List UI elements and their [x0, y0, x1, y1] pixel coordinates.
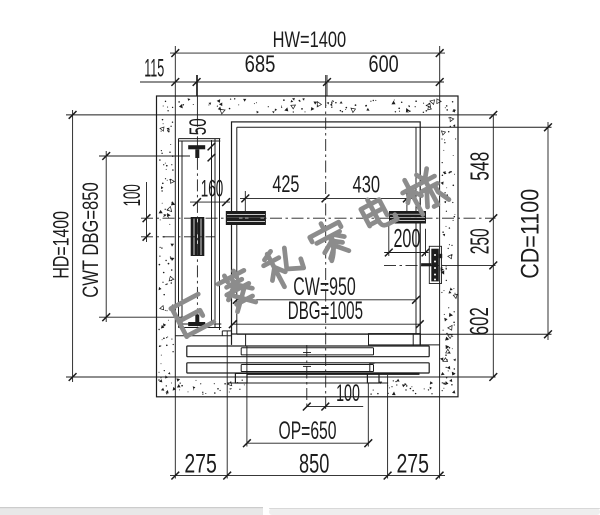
svg-text:250: 250	[464, 228, 494, 254]
svg-text:685: 685	[245, 51, 276, 78]
svg-text:425: 425	[272, 171, 299, 198]
svg-text:275: 275	[396, 448, 429, 478]
svg-text:100: 100	[119, 184, 146, 206]
svg-text:115: 115	[144, 54, 164, 82]
svg-text:200: 200	[393, 225, 420, 253]
svg-text:160: 160	[201, 175, 223, 202]
svg-text:100: 100	[336, 380, 360, 407]
svg-text:850: 850	[299, 448, 329, 478]
svg-text:OP=650: OP=650	[279, 417, 337, 445]
svg-text:HW=1400: HW=1400	[273, 27, 347, 52]
svg-text:DBG=1005: DBG=1005	[288, 297, 363, 325]
svg-text:CD=1100: CD=1100	[516, 189, 544, 279]
svg-text:HD=1400: HD=1400	[49, 211, 74, 279]
svg-text:275: 275	[184, 448, 217, 478]
svg-text:600: 600	[369, 51, 399, 78]
svg-text:430: 430	[353, 172, 381, 199]
svg-text:602: 602	[464, 307, 494, 335]
svg-text:CWT DBG=850: CWT DBG=850	[78, 182, 103, 298]
svg-text:548: 548	[465, 152, 495, 181]
svg-text:50: 50	[185, 118, 212, 135]
